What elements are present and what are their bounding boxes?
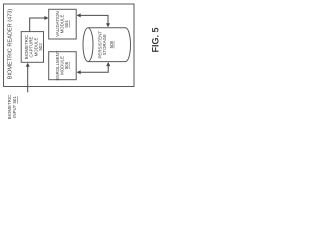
svg-text:508: 508 (109, 40, 114, 48)
label: BIOMETRIC INPUT 501 (7, 95, 17, 119)
svg-text:STORAGE: STORAGE (102, 34, 107, 55)
svg-text:FIG. 5: FIG. 5 (151, 27, 161, 52)
block: biometric capture module 502 (21, 32, 43, 63)
svg-text:504: 504 (64, 20, 69, 28)
wire: capture top -> validation left (30, 18, 46, 32)
svg-text:506: 506 (64, 61, 69, 69)
wire: validation right <-> storage top (double arrow) (80, 15, 108, 23)
svg-text:INPUT 501: INPUT 501 (12, 96, 17, 118)
block: validation module 504 (49, 9, 76, 39)
outer box: biometric reader (4, 4, 135, 87)
cylinder: persistent storage 508 (83, 28, 131, 62)
wire: biometric input -> capture bottom (27, 66, 29, 92)
svg-text:BIOMETRIC READER (473): BIOMETRIC READER (473) (8, 9, 14, 80)
wire: enrollment right <-> storage bottom (double arrow) (80, 66, 108, 73)
svg-text:502: 502 (38, 43, 43, 51)
block: enrollment module 506 (49, 52, 76, 80)
